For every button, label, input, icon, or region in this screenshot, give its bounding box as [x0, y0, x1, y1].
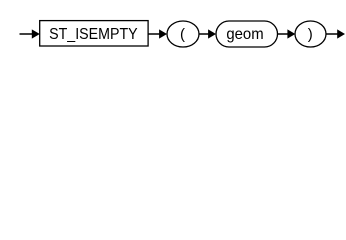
svg-text:geom: geom — [226, 26, 263, 43]
svg-text:ST_ISEMPTY: ST_ISEMPTY — [49, 26, 138, 43]
wire ( to geom — [199, 33, 209, 35]
arrowhead into ST_ISEMPTY box — [32, 29, 40, 38]
arrowhead into ( — [159, 29, 167, 38]
wire start line — [20, 33, 34, 35]
stadium geom — [216, 21, 278, 47]
svg-text:): ) — [308, 26, 313, 43]
wire box to ( — [148, 33, 160, 35]
terminal ( ellipse — [167, 21, 199, 47]
wire ) to end — [326, 33, 338, 35]
terminal ) ellipse — [295, 21, 326, 47]
box ST_ISEMPTY — [40, 21, 148, 46]
final arrowhead — [337, 29, 345, 38]
svg-text:(: ( — [180, 26, 185, 43]
arrowhead into geom — [208, 29, 216, 38]
arrowhead into ) — [287, 29, 295, 38]
wire geom to ) — [278, 33, 289, 35]
